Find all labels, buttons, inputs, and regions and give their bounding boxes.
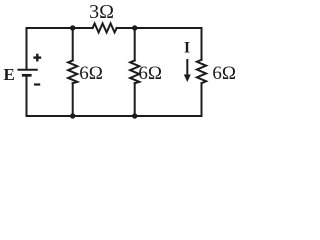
current arrow I stem xyxy=(186,60,188,76)
battery minus sign xyxy=(34,83,40,85)
resistor R2 6ohm zigzag xyxy=(130,60,139,83)
wire top-left segment xyxy=(27,28,93,69)
svg-text:I: I xyxy=(184,40,190,57)
wire branch 2 lower xyxy=(134,83,136,116)
svg-text:6Ω: 6Ω xyxy=(79,63,103,84)
wire right-bottom segment xyxy=(27,76,202,116)
node dot top branch1 xyxy=(70,25,75,30)
resistor R-top 3ohm zigzag xyxy=(93,24,117,33)
current arrow head xyxy=(184,75,191,83)
resistor R3 6ohm right edge zigzag xyxy=(197,60,206,83)
wire branch 1 lower xyxy=(72,83,74,116)
node dot top branch2 xyxy=(132,25,137,30)
battery E long plate xyxy=(18,69,38,71)
wire branch 1 upper xyxy=(72,28,74,60)
resistor R1 6ohm zigzag xyxy=(68,60,77,83)
wire branch 2 upper xyxy=(134,28,136,60)
node dot bottom branch2 xyxy=(132,113,137,118)
svg-text:6Ω: 6Ω xyxy=(212,63,236,84)
svg-text:3Ω: 3Ω xyxy=(89,1,114,23)
battery plus sign xyxy=(33,54,41,62)
svg-text:E: E xyxy=(4,65,15,84)
battery E short plate xyxy=(22,74,32,77)
wire top-right segment xyxy=(117,28,202,60)
node dot bottom branch1 xyxy=(70,113,75,118)
svg-text:6Ω: 6Ω xyxy=(138,63,162,84)
